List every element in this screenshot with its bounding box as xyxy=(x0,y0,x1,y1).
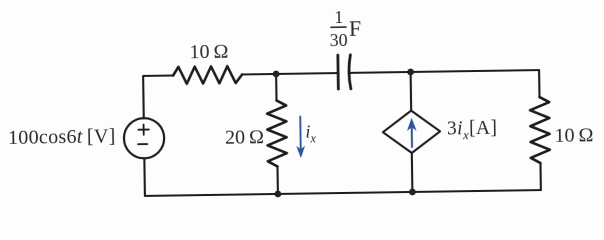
svg-text:3ix[A]: 3ix[A] xyxy=(447,118,498,143)
resistor R1 10 ohm (top) xyxy=(173,66,242,84)
wire diamond bottom lead xyxy=(411,153,414,192)
node A dot xyxy=(273,71,280,78)
wire top middle xyxy=(242,73,338,74)
capacitor C1 left plate xyxy=(336,55,339,89)
wire left bottom xyxy=(143,158,146,196)
dependent source arrow (blue, up) xyxy=(407,118,417,147)
resistor R2 20 ohm (middle) xyxy=(267,100,287,166)
svg-text:1: 1 xyxy=(334,7,343,27)
svg-text:30: 30 xyxy=(329,30,347,50)
VS plus sign xyxy=(138,124,149,135)
VS minus sign xyxy=(138,143,147,145)
resistor R3 10 ohm (right) xyxy=(530,97,550,163)
wire top left lead xyxy=(143,75,174,118)
label capacitor fraction bar xyxy=(331,26,346,28)
current arrow ix (blue, down) xyxy=(296,117,305,159)
svg-text:10 Ω: 10 Ω xyxy=(189,41,228,64)
svg-text:20 Ω: 20 Ω xyxy=(225,126,264,149)
wire top right xyxy=(350,70,540,100)
svg-text:100cos6t [V]: 100cos6t [V] xyxy=(8,126,116,150)
capacitor C1 right plate xyxy=(349,55,351,89)
node D dot xyxy=(409,189,416,196)
voltage source VS circle xyxy=(124,118,165,159)
node B dot xyxy=(407,69,414,76)
wire bottom xyxy=(145,190,541,196)
svg-text:10 Ω: 10 Ω xyxy=(554,124,593,147)
wire diamond top lead xyxy=(410,72,413,111)
wire 20ohm top lead xyxy=(275,74,277,100)
wire 20ohm bottom lead xyxy=(276,166,279,193)
svg-text:F: F xyxy=(349,16,362,41)
node C dot xyxy=(274,191,281,198)
svg-text:ix: ix xyxy=(305,121,316,145)
dependent source U1 diamond xyxy=(383,110,441,153)
wire right bottom xyxy=(539,163,542,190)
